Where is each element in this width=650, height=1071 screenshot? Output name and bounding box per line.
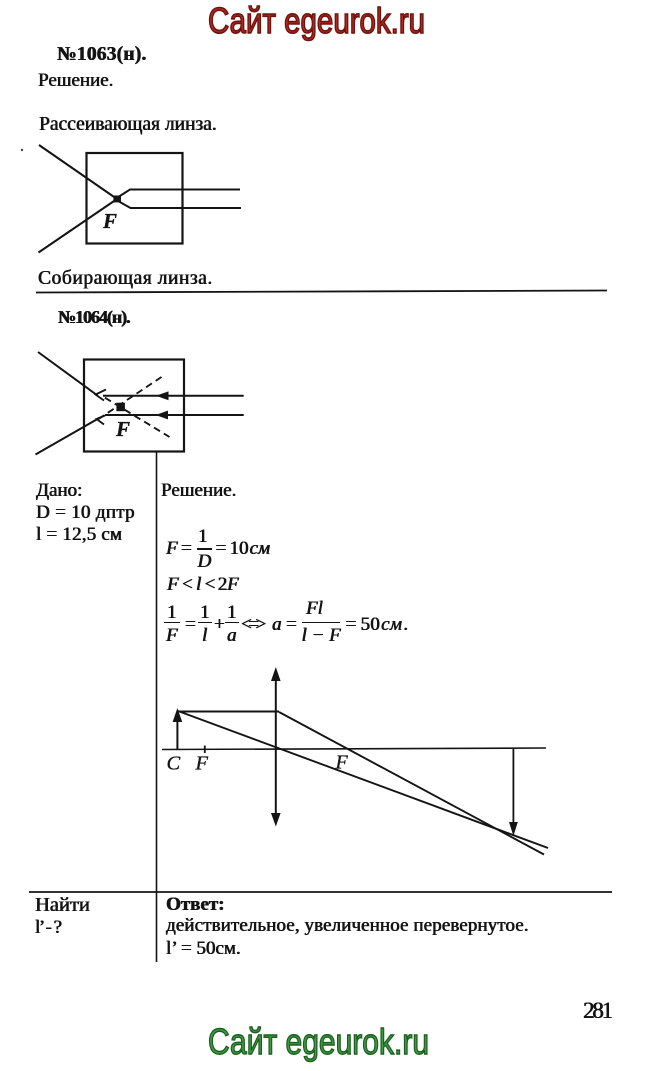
svg-text:C: C (167, 753, 181, 775)
svg-text:F: F (102, 209, 117, 233)
svg-text:F: F (335, 752, 349, 774)
svg-text:F: F (115, 417, 130, 441)
svg-text:F: F (195, 753, 209, 775)
